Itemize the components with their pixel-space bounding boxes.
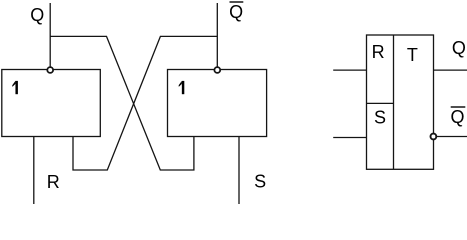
svg-text:Q: Q — [229, 2, 243, 22]
svg-text:T: T — [407, 45, 418, 65]
svg-text:Q: Q — [30, 5, 44, 25]
svg-text:S: S — [374, 107, 386, 127]
svg-text:R: R — [47, 172, 60, 192]
svg-text:S: S — [254, 172, 266, 192]
svg-text:Q: Q — [451, 107, 465, 127]
svg-text:Q: Q — [452, 38, 466, 58]
svg-text:R: R — [372, 42, 385, 62]
